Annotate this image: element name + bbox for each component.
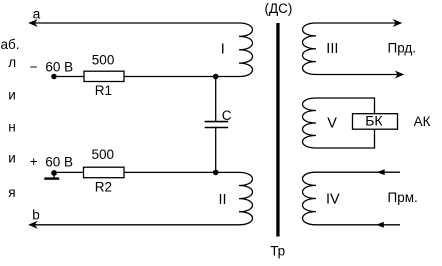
- svg-text:л: л: [8, 55, 16, 70]
- wire capacitor bottom lead: [215, 128, 217, 173]
- winding V (4 loops facing left): [303, 98, 317, 148]
- arrowhead b (points left): [29, 222, 36, 228]
- wire III top: [316, 22, 398, 24]
- svg-text:V: V: [327, 116, 337, 132]
- transformer core Tr: [276, 23, 279, 237]
- block БК box: [353, 114, 398, 130]
- arrowhead III top (points right): [394, 20, 401, 26]
- junction node bottom (cap to R2 line): [213, 170, 219, 176]
- svg-text:III: III: [326, 41, 338, 57]
- wire b : bottom line from winding II to arrow: [30, 224, 239, 226]
- arrowhead III bottom (points right): [396, 71, 403, 77]
- terminal dot -60V: [51, 74, 57, 80]
- winding IV (4 loops facing left): [303, 172, 317, 225]
- svg-text:(ДС): (ДС): [265, 1, 293, 16]
- svg-text:500: 500: [92, 53, 115, 68]
- resistor R2: [84, 167, 125, 178]
- svg-text:+: +: [30, 154, 38, 169]
- terminal dot +60V with base: [51, 170, 57, 176]
- svg-text:−: −: [30, 59, 38, 74]
- wire V loop (top, right side, bottom): [316, 98, 375, 148]
- svg-text:b: b: [32, 208, 40, 223]
- junction node top (cap to R1 line): [213, 74, 219, 80]
- arrowhead a (points left): [29, 20, 36, 26]
- svg-text:БК: БК: [365, 113, 383, 129]
- arrowhead IV bottom (points left, mid-wire): [377, 222, 384, 227]
- svg-text:60 В: 60 В: [45, 60, 73, 75]
- arrowhead IV top (points left, mid-wire): [378, 170, 385, 175]
- svg-text:АК: АК: [414, 114, 431, 129]
- svg-text:С: С: [222, 108, 232, 123]
- svg-text:R2: R2: [95, 180, 112, 195]
- capacitor C bottom plate: [205, 127, 229, 129]
- capacitor C top plate: [205, 121, 229, 123]
- wire R2 line (from +60V node through R2 to winding II top): [54, 171, 239, 173]
- svg-text:60 В: 60 В: [45, 154, 73, 169]
- winding II (4 loops facing right): [239, 172, 253, 224]
- svg-text:Прм.: Прм.: [388, 190, 418, 205]
- winding III (4 loops facing left): [303, 23, 317, 75]
- resistor R1: [84, 71, 124, 81]
- svg-text:и: и: [8, 88, 16, 103]
- svg-text:Прд.: Прд.: [388, 41, 417, 56]
- wire III bottom: [316, 74, 400, 76]
- svg-text:и: и: [8, 150, 16, 165]
- wire capacitor top lead: [215, 77, 217, 122]
- wire R1 line (from -60V node through R1 to winding I bottom): [54, 76, 239, 78]
- svg-text:н: н: [8, 119, 15, 134]
- wire IV bottom: [316, 224, 400, 226]
- wire a : top line from arrow to winding I: [30, 22, 239, 24]
- svg-text:500: 500: [92, 147, 115, 162]
- svg-text:а: а: [33, 7, 41, 22]
- svg-text:R1: R1: [95, 83, 112, 98]
- winding I (4 loops facing right): [239, 23, 253, 77]
- svg-text:II: II: [219, 192, 227, 208]
- svg-text:I: I: [221, 41, 225, 57]
- svg-text:Тр: Тр: [270, 243, 285, 258]
- svg-text:IV: IV: [326, 191, 340, 207]
- svg-text:аб.: аб.: [1, 37, 20, 52]
- svg-text:я: я: [8, 185, 15, 200]
- wire IV top: [316, 171, 400, 173]
